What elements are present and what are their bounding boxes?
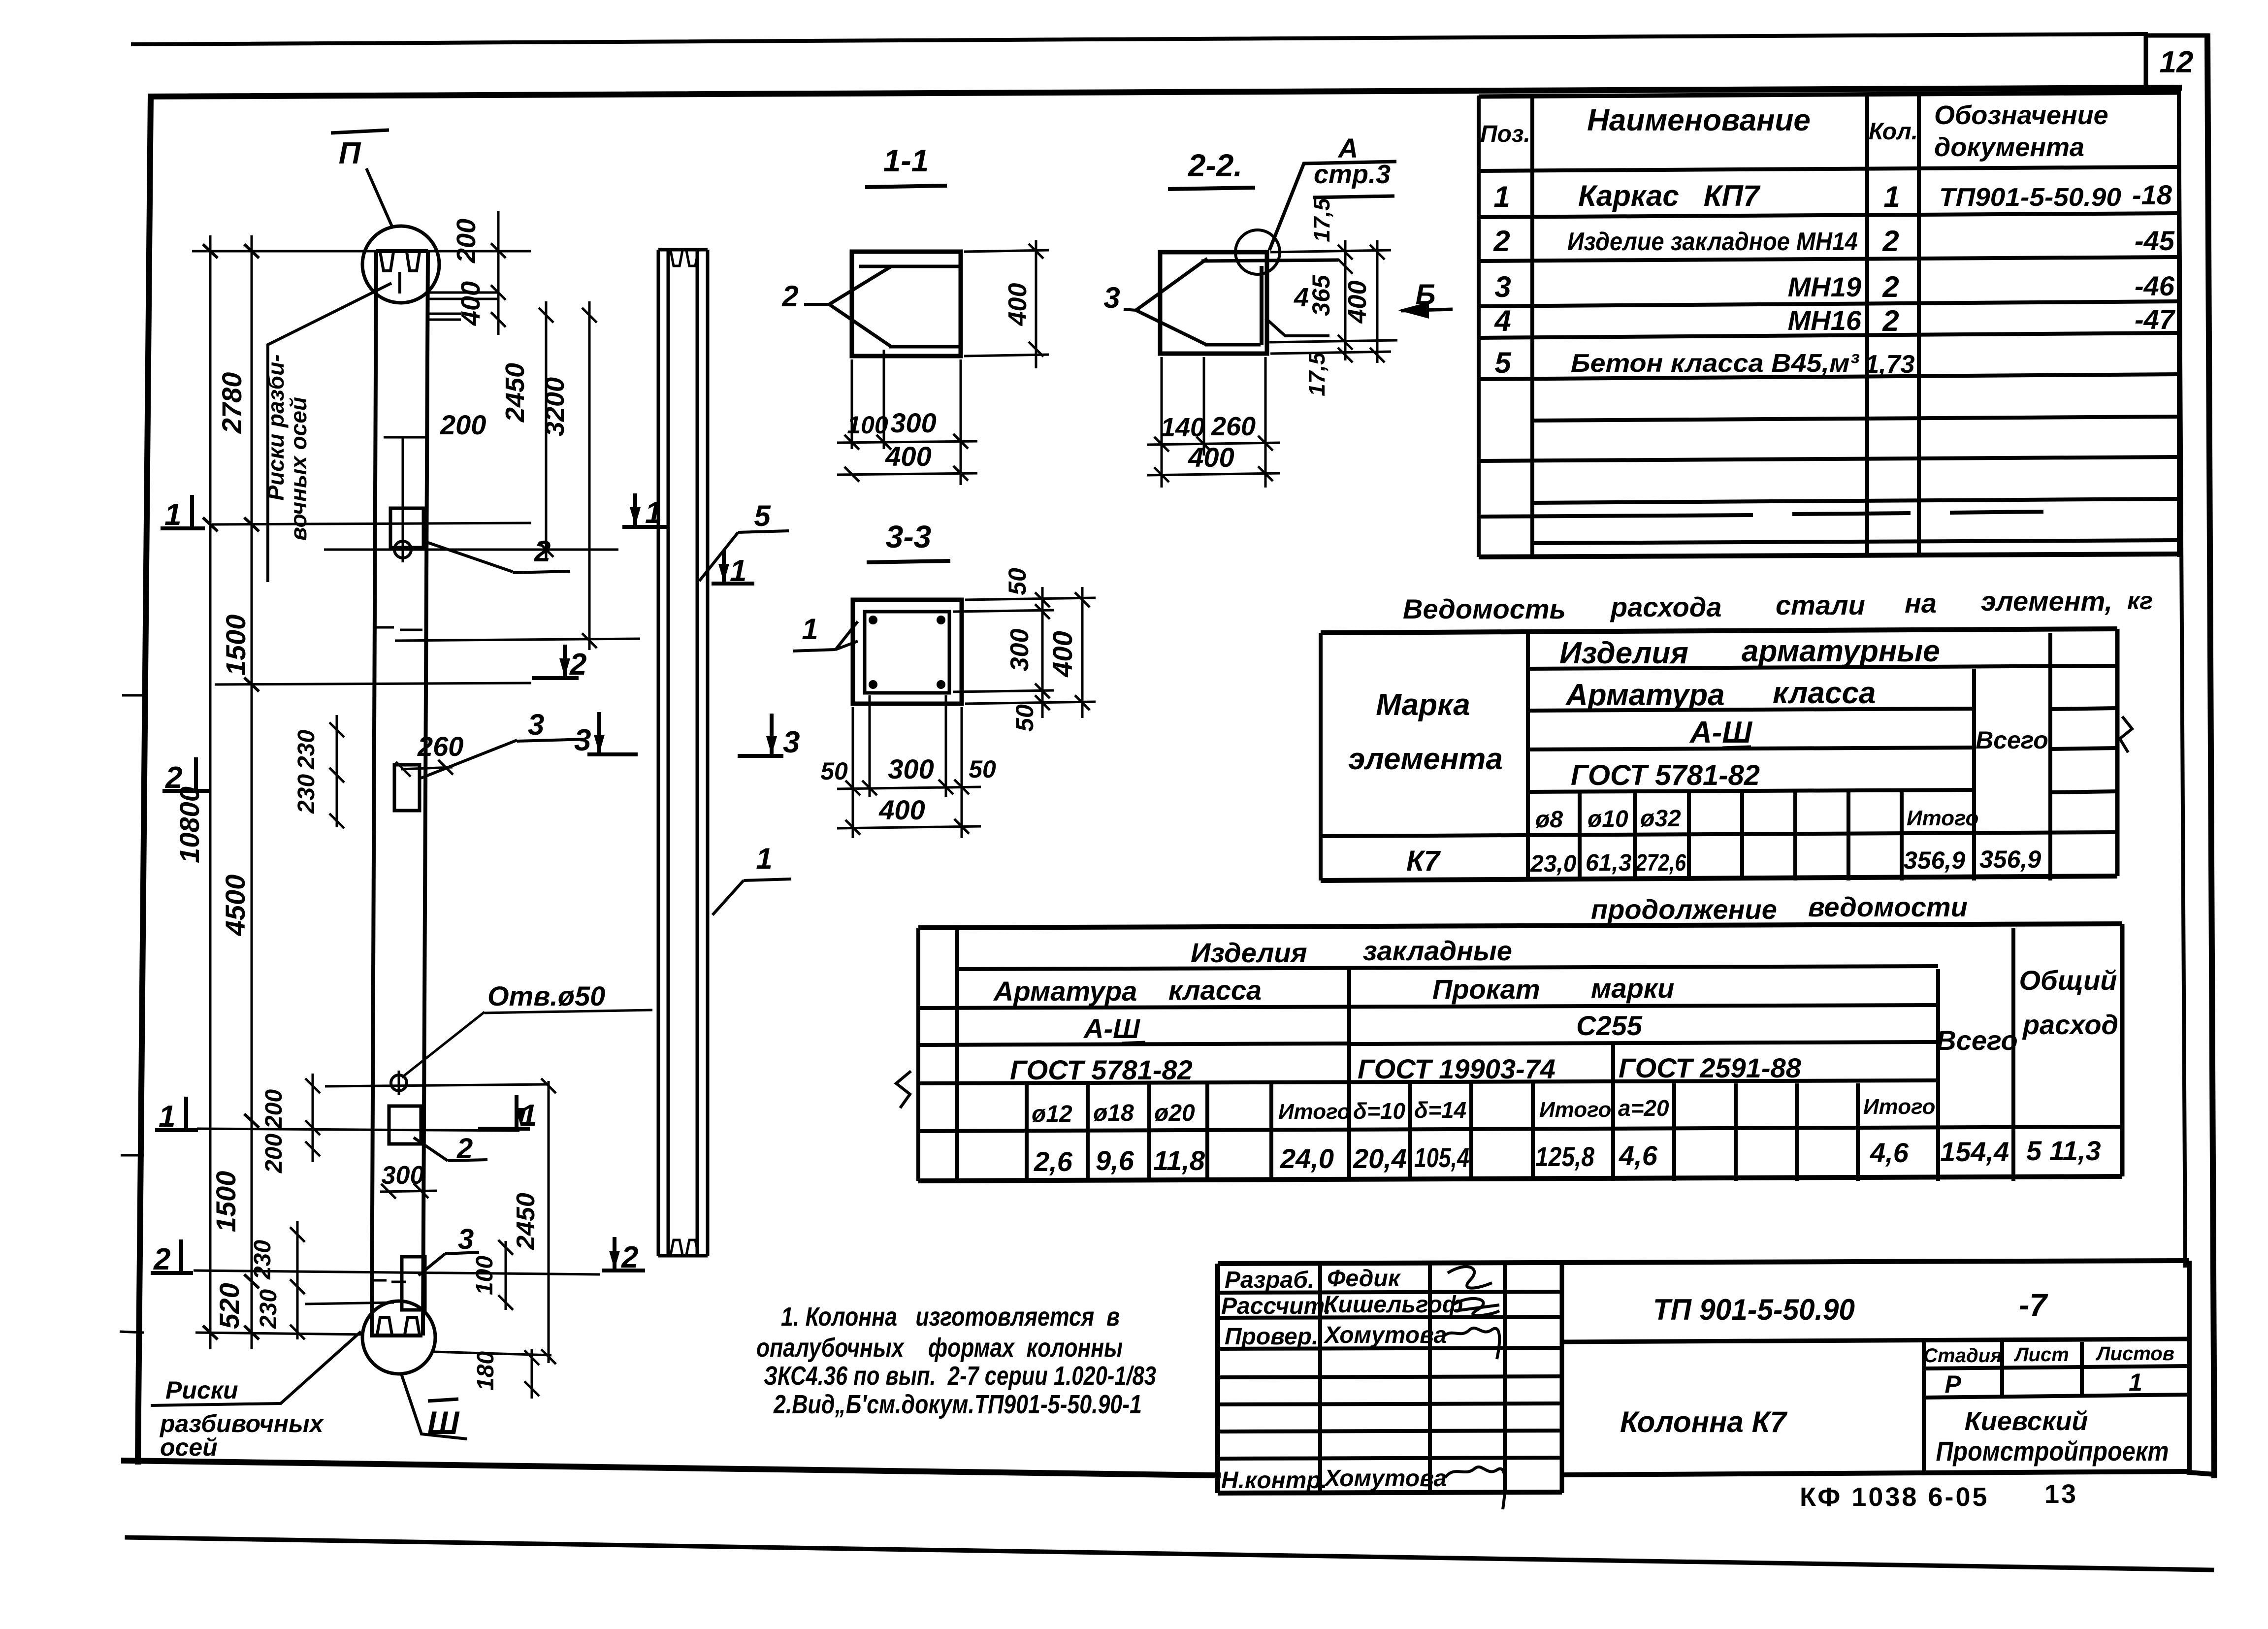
svg-text:МН19: МН19 [1788,271,1861,302]
svg-text:1-1: 1-1 [883,143,929,178]
svg-text:400: 400 [1047,631,1078,677]
svg-text:П: П [339,136,361,170]
svg-text:1500: 1500 [220,615,251,676]
svg-text:Отв.ø50: Отв.ø50 [487,980,605,1011]
svg-text:Стадия: Стадия [1923,1345,2002,1367]
svg-text:Итого: Итого [1278,1100,1350,1124]
svg-text:260: 260 [417,731,463,762]
svg-text:3: 3 [458,1223,474,1255]
svg-text:230: 230 [256,1289,282,1329]
svg-text:3: 3 [1494,270,1511,303]
svg-text:2: 2 [1882,225,1899,258]
svg-text:1: 1 [730,554,746,588]
svg-text:2: 2 [621,1240,638,1274]
svg-text:Итого: Итого [1539,1098,1611,1122]
svg-text:А-Ш: А-Ш [1083,1013,1140,1044]
svg-text:ГОСТ 5781-82: ГОСТ 5781-82 [1010,1054,1193,1085]
svg-text:продолжение: продолжение [1591,894,1777,925]
svg-text:2: 2 [534,535,551,568]
svg-text:1,73: 1,73 [1865,350,1914,379]
svg-text:2: 2 [165,761,182,795]
svg-text:Колонна К7: Колонна К7 [1620,1405,1788,1438]
svg-text:Н.контр.: Н.контр. [1221,1467,1328,1494]
svg-text:Хомутова: Хомутова [1323,1466,1447,1492]
svg-text:356,9: 356,9 [1904,847,1965,874]
svg-text:300: 300 [890,407,936,438]
svg-text:1: 1 [1883,180,1900,213]
svg-text:100: 100 [847,411,888,439]
svg-text:3: 3 [574,723,591,757]
svg-text:1: 1 [802,613,818,646]
svg-text:272,6: 272,6 [1635,850,1686,876]
svg-text:200: 200 [261,1089,287,1129]
svg-text:300: 300 [888,753,934,784]
svg-text:арматурные: арматурные [1742,634,1940,668]
svg-text:Марка: Марка [1376,688,1470,722]
svg-text:100: 100 [472,1256,498,1295]
svg-text:5 11,3: 5 11,3 [2026,1135,2101,1166]
svg-text:-46: -46 [2135,270,2175,301]
svg-text:180: 180 [473,1351,499,1391]
svg-text:4,6: 4,6 [1619,1140,1658,1171]
svg-text:ТП 901-5-50.90: ТП 901-5-50.90 [1653,1293,1855,1326]
svg-text:520: 520 [214,1283,245,1329]
svg-text:К7: К7 [1406,845,1441,877]
svg-text:365: 365 [1307,274,1335,316]
svg-text:12: 12 [2160,45,2194,79]
svg-text:23,0: 23,0 [1530,851,1577,877]
svg-text:61,3: 61,3 [1586,850,1632,876]
svg-text:9,6: 9,6 [1096,1145,1134,1176]
svg-text:Арматура: Арматура [1565,678,1725,712]
svg-text:δ=10: δ=10 [1353,1098,1406,1124]
svg-text:-45: -45 [2135,225,2175,256]
svg-text:20,4: 20,4 [1353,1143,1407,1174]
svg-text:Итого: Итого [1863,1095,1935,1119]
svg-text:2450: 2450 [500,363,530,423]
svg-text:вочных осей: вочных осей [286,397,311,541]
svg-text:230: 230 [293,774,320,814]
svg-text:50: 50 [820,757,848,785]
svg-text:5: 5 [754,499,771,532]
svg-text:ТП901-5-50.90: ТП901-5-50.90 [1939,183,2121,212]
svg-text:230: 230 [250,1240,276,1280]
svg-text:1: 1 [2129,1368,2142,1396]
svg-text:1500: 1500 [210,1171,241,1233]
svg-text:2: 2 [153,1242,170,1276]
svg-text:δ=14: δ=14 [1414,1097,1466,1123]
svg-text:400: 400 [1188,442,1234,473]
svg-text:200: 200 [440,409,486,440]
svg-text:расход: расход [2022,1009,2118,1040]
svg-text:элемент,: элемент, [1981,586,2112,617]
svg-text:а=20: а=20 [1618,1095,1669,1121]
svg-text:5: 5 [1494,346,1512,379]
svg-text:50: 50 [1004,568,1031,595]
svg-text:Лист: Лист [2013,1344,2069,1366]
svg-text:4,6: 4,6 [1870,1137,1909,1168]
svg-text:140: 140 [1161,413,1205,442]
svg-text:ø12: ø12 [1032,1101,1072,1127]
svg-text:КФ 1038 6-05: КФ 1038 6-05 [1800,1482,1989,1512]
svg-text:400: 400 [1004,283,1032,326]
svg-text:ø32: ø32 [1640,806,1681,832]
svg-text:1: 1 [1493,180,1510,213]
svg-text:1: 1 [520,1099,537,1133]
svg-text:3200: 3200 [540,377,570,436]
svg-text:МН16: МН16 [1788,305,1862,336]
svg-text:2: 2 [569,648,586,682]
svg-text:ГОСТ 2591-88: ГОСТ 2591-88 [1619,1052,1802,1083]
svg-text:Кишельгоф: Кишельгоф [1324,1292,1463,1318]
svg-text:4500: 4500 [220,875,251,937]
svg-text:Ведомость: Ведомость [1403,593,1566,624]
svg-text:154,4: 154,4 [1940,1136,2009,1167]
svg-text:Прокат: Прокат [1432,974,1540,1005]
svg-text:3: 3 [783,725,800,759]
svg-text:класса: класса [1773,676,1876,710]
svg-text:Разраб.: Разраб. [1225,1267,1314,1293]
svg-text:2450: 2450 [512,1193,540,1250]
svg-text:ø10: ø10 [1588,806,1628,832]
svg-text:1: 1 [159,1100,175,1134]
svg-text:17,5: 17,5 [1309,197,1334,242]
svg-text:Изделие закладное МН14: Изделие закладное МН14 [1567,228,1858,256]
svg-text:А: А [1337,132,1358,163]
svg-text:2-2.: 2-2. [1188,148,1242,183]
svg-text:3: 3 [1103,281,1120,314]
svg-text:400: 400 [878,794,925,825]
svg-text:1: 1 [164,498,181,532]
svg-text:элемента: элемента [1348,742,1503,776]
svg-text:С255: С255 [1576,1010,1643,1041]
svg-text:13: 13 [2044,1479,2078,1509]
svg-text:-18: -18 [2132,179,2172,210]
svg-text:3: 3 [528,708,544,741]
svg-text:125,8: 125,8 [1535,1141,1595,1172]
svg-text:опалубочных формах колонны: опалубочных формах колонны [756,1333,1123,1363]
svg-text:Обозначение: Обозначение [1934,100,2108,130]
svg-text:А-Ш: А-Ш [1689,716,1752,749]
svg-text:200: 200 [452,219,481,263]
svg-text:класса: класса [1168,975,1262,1006]
svg-text:Киевский: Киевский [1965,1406,2088,1436]
svg-text:Провер.: Провер. [1225,1324,1318,1350]
svg-text:2: 2 [1882,270,1899,303]
svg-text:400: 400 [885,441,931,472]
svg-text:ø20: ø20 [1154,1100,1195,1126]
svg-text:документа: документа [1934,132,2084,162]
svg-text:50: 50 [969,755,996,783]
svg-text:ГОСТ 5781-82: ГОСТ 5781-82 [1571,759,1760,791]
svg-text:300: 300 [1005,629,1034,672]
svg-text:105,4: 105,4 [1414,1142,1469,1173]
svg-text:1: 1 [645,496,662,530]
svg-text:230: 230 [293,730,320,770]
svg-text:Риски: Риски [165,1376,238,1404]
svg-text:Федик: Федик [1327,1266,1401,1292]
svg-text:закладные: закладные [1363,935,1512,966]
svg-text:Всего: Всего [1936,1025,2017,1056]
svg-text:1: 1 [756,842,772,875]
svg-text:2,6: 2,6 [1034,1146,1073,1177]
svg-text:2.Вид„Б′см.докум.ТП901-5-50.90: 2.Вид„Б′см.докум.ТП901-5-50.90-1 [773,1390,1142,1419]
svg-text:2780: 2780 [216,372,247,434]
svg-text:Промстройпроект: Промстройпроект [1936,1435,2169,1466]
svg-text:11,8: 11,8 [1153,1145,1205,1176]
svg-text:Изделия: Изделия [1191,937,1307,968]
svg-text:356,9: 356,9 [1979,846,2041,873]
svg-text:Хомутова: Хомутова [1323,1322,1447,1348]
svg-text:3-3: 3-3 [886,519,932,554]
svg-text:осей: осей [160,1434,218,1461]
svg-text:Листов: Листов [2095,1343,2174,1365]
svg-text:расхода: расхода [1610,591,1721,622]
svg-text:ø8: ø8 [1535,807,1563,833]
svg-text:2: 2 [1493,225,1510,258]
svg-text:Р: Р [1944,1370,1961,1398]
svg-text:400: 400 [456,281,486,326]
svg-text:4: 4 [1494,304,1511,337]
svg-text:1. Колонна изготовляется в: 1. Колонна изготовляется в [781,1302,1120,1332]
svg-text:17,5: 17,5 [1304,352,1329,396]
svg-text:400: 400 [1343,281,1372,324]
svg-text:Бетон класса В45,м³: Бетон класса В45,м³ [1571,349,1860,378]
svg-text:ведомости: ведомости [1808,891,1968,922]
svg-text:50: 50 [1011,704,1038,732]
svg-text:ГОСТ 19903-74: ГОСТ 19903-74 [1358,1053,1555,1084]
svg-text:на: на [1905,587,1937,619]
svg-text:10800: 10800 [174,786,205,863]
svg-text:260: 260 [1211,412,1256,441]
svg-text:-7: -7 [2019,1287,2048,1323]
svg-text:Каркас КП7: Каркас КП7 [1578,179,1761,212]
svg-text:кг: кг [2127,587,2153,615]
svg-text:4: 4 [1294,283,1309,312]
svg-text:Всего: Всего [1976,726,2048,754]
svg-text:марки: марки [1591,973,1674,1004]
svg-text:200: 200 [261,1134,287,1173]
svg-text:ø18: ø18 [1093,1100,1134,1126]
svg-text:ЗКС4.36 по вып. 2-7 серии: ЗКС4.36 по вып. 2-7 серии 1.020-1/83 [764,1361,1156,1391]
svg-text:Общий: Общий [2019,965,2117,996]
svg-text:Арматура: Арматура [993,976,1137,1007]
svg-text:Рассчит.: Рассчит. [1221,1293,1331,1319]
svg-text:стали: стали [1776,589,1865,620]
svg-text:2: 2 [781,280,798,313]
svg-text:Итого: Итого [1907,806,1978,830]
svg-text:Кол.: Кол. [1869,119,1918,145]
svg-text:Изделия: Изделия [1559,636,1688,670]
svg-text:Поз.: Поз. [1480,121,1530,147]
svg-text:-47: -47 [2135,304,2176,335]
svg-text:2: 2 [1882,304,1899,337]
svg-text:24,0: 24,0 [1280,1143,1334,1174]
svg-text:Наименование: Наименование [1587,103,1811,137]
svg-text:300: 300 [382,1161,424,1190]
